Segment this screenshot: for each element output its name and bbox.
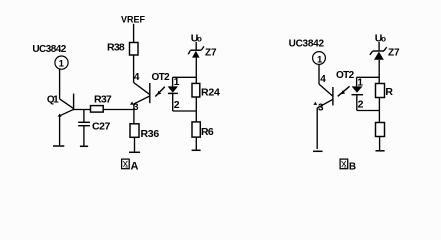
svg-text:Z7: Z7 [388, 47, 400, 58]
svg-text:2: 2 [358, 99, 364, 111]
svg-text:3: 3 [318, 103, 324, 114]
svg-text:R38: R38 [107, 41, 125, 53]
svg-text:1: 1 [317, 55, 323, 66]
svg-text:R: R [385, 86, 393, 98]
svg-text:VREF: VREF [121, 15, 146, 25]
svg-text:R24: R24 [201, 86, 220, 98]
svg-text:R6: R6 [201, 126, 214, 138]
svg-text:4: 4 [320, 74, 326, 85]
svg-text:B: B [349, 161, 356, 172]
svg-text:1: 1 [59, 58, 65, 69]
svg-text:3: 3 [133, 102, 138, 113]
svg-text:A: A [131, 160, 139, 172]
svg-text:UC3842: UC3842 [289, 38, 325, 49]
svg-text:2: 2 [174, 99, 180, 111]
svg-text:o: o [197, 35, 202, 44]
svg-text:OT2: OT2 [336, 70, 355, 81]
svg-text:o: o [381, 34, 386, 43]
svg-text:4: 4 [134, 72, 140, 83]
svg-text:1: 1 [174, 76, 180, 88]
svg-text:OT2: OT2 [152, 72, 171, 83]
svg-text:C27: C27 [92, 121, 111, 133]
svg-text:Z7: Z7 [205, 47, 217, 58]
svg-text:1: 1 [357, 77, 363, 89]
svg-text:UC3842: UC3842 [32, 44, 66, 55]
svg-text:R36: R36 [141, 128, 160, 140]
svg-text:R37: R37 [94, 94, 112, 106]
